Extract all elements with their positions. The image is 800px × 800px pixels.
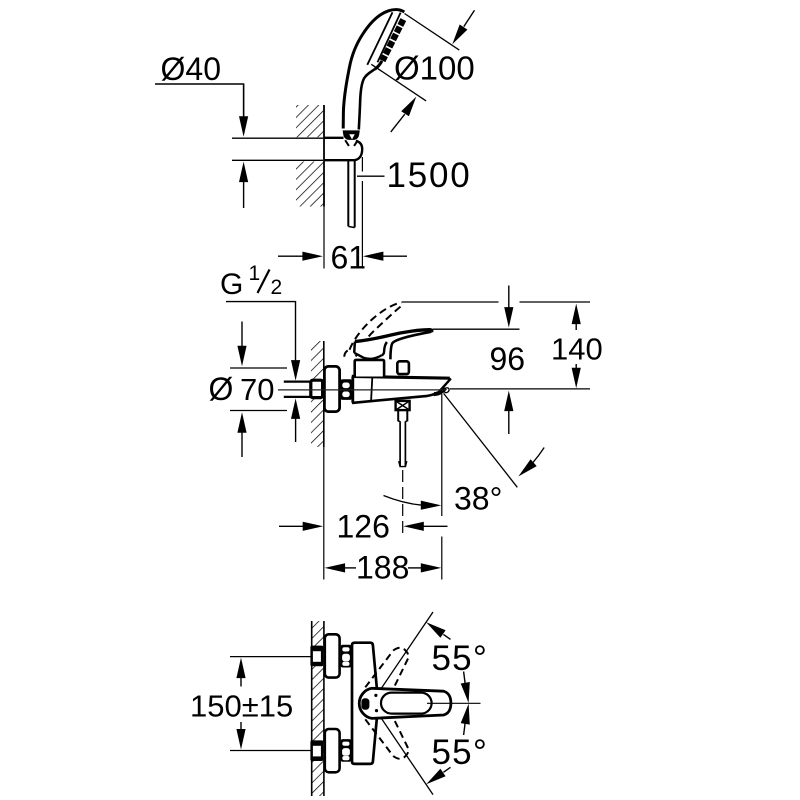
- diverter X-box: [396, 401, 410, 410]
- lever dots: [374, 694, 377, 697]
- G 1/2 up arrow: [291, 398, 300, 419]
- dimension Ø100 lower arrow: [401, 97, 416, 117]
- wall holder bracket: [324, 138, 362, 160]
- dimension Ø40 leader: [155, 84, 244, 122]
- dimension 150±15 extension/supply lines: [230, 656, 311, 658]
- dimension 140 bottom extension line (spout outlet level): [450, 388, 590, 390]
- svg-text:126: 126: [337, 509, 390, 545]
- dimension Ø40 up arrow: [239, 162, 248, 183]
- svg-text:G: G: [220, 268, 243, 301]
- dimension 150±15 down arrow: [236, 729, 245, 750]
- wall lines (bottom view): [311, 621, 313, 796]
- dimension 96 top extension line: [433, 328, 520, 330]
- dimension Ø100 upper arrow: [452, 25, 467, 45]
- dimension 188 left arrow: [325, 563, 346, 572]
- upper wall nut: [310, 646, 323, 667]
- dimension Ø70 up arrow: [237, 412, 246, 433]
- dimension Ø40 text: [161, 51, 221, 87]
- 38 degree diagonal line: [444, 393, 518, 487]
- dimension 1500 leader: [357, 175, 385, 177]
- supply pipe G1/2: [284, 382, 312, 397]
- dimension 150±15 up arrow: [236, 658, 245, 679]
- lever hole capsule: [361, 698, 369, 709]
- 55 degree line lower: [382, 719, 434, 795]
- escutcheon (middle view): [324, 366, 339, 411]
- dashed raised lever (middle view): [344, 302, 401, 357]
- 55 degree upper center arrow: [461, 682, 470, 703]
- lever inner stadium: [381, 693, 432, 714]
- lower connector nut (plan): [341, 739, 352, 762]
- spout outlet cut: [438, 379, 451, 393]
- mixer body and spout: [352, 376, 451, 403]
- diverter knob: [397, 361, 409, 374]
- G 1/2 down arrow: [291, 360, 300, 381]
- svg-text:55°: 55°: [432, 733, 489, 772]
- svg-text:188: 188: [356, 550, 409, 586]
- shower head outline: [343, 10, 404, 130]
- svg-text:1500: 1500: [387, 156, 472, 195]
- dimension 188 right arrow: [421, 563, 442, 572]
- dashed rotated lever +55 (plan): [365, 648, 408, 690]
- centerline (plan): [427, 702, 481, 704]
- lever handle (plan): [359, 688, 451, 718]
- spout tip vertical extension line (188): [441, 394, 443, 516]
- diverter pull rod: [398, 410, 407, 467]
- lever handle (solid): [354, 330, 432, 360]
- dimension Ø100 extension line 1: [405, 14, 460, 51]
- svg-text:1: 1: [249, 262, 261, 285]
- shower head face plate lines: [367, 12, 392, 65]
- spout outlet lip: [434, 388, 446, 394]
- dimension 140 top extension line: [402, 301, 499, 303]
- dimension 61 right arrow: [363, 252, 384, 261]
- dimension Ø40 down arrow: [239, 116, 248, 137]
- dimension 96 down arrow: [504, 307, 513, 328]
- svg-text:Ø100: Ø100: [394, 50, 475, 87]
- svg-text:140: 140: [551, 332, 603, 367]
- svg-text:38°: 38°: [454, 481, 502, 517]
- mixer body (plan): [352, 643, 377, 764]
- centerline (middle view): [278, 389, 446, 391]
- wall hatching (top view): [296, 105, 324, 207]
- pipe square nut: [311, 380, 323, 397]
- svg-text:61: 61: [331, 240, 367, 276]
- wall hatching (middle view): [311, 341, 324, 447]
- dimension Ø70 down arrow: [237, 346, 246, 367]
- svg-text:96: 96: [490, 341, 526, 377]
- G 1/2 label: [220, 262, 282, 301]
- svg-text:Ø: Ø: [209, 371, 234, 407]
- dimension 126 left arrow: [303, 522, 324, 531]
- dimension Ø100 extension line 2: [371, 64, 426, 101]
- svg-text:2: 2: [271, 276, 283, 299]
- dimension 140 down arrow: [572, 368, 581, 389]
- dimension 140 up arrow: [572, 304, 581, 325]
- 38 degree arc right with arrow: [521, 448, 544, 475]
- svg-text:55°: 55°: [432, 639, 489, 678]
- dimension 61 left arrow: [302, 252, 323, 261]
- cartridge dome: [355, 360, 384, 377]
- wall line (top view): [323, 105, 325, 207]
- 55 degree lower center arrow: [461, 704, 470, 725]
- dimension Ø70 extension lines: [230, 367, 287, 369]
- wall extension line down to 61 dim: [323, 207, 325, 269]
- shower hose: [348, 161, 354, 228]
- wall line (middle view): [323, 341, 325, 447]
- dimension 126 right arrow: [403, 522, 424, 531]
- wall extension line down to dims: [323, 447, 325, 580]
- upper escutcheon (plan): [325, 634, 340, 677]
- dimension 96 up arrow: [504, 391, 513, 412]
- hose cone nut: [343, 130, 360, 146]
- 55 degree line upper: [382, 612, 434, 688]
- 55 degree lower arrow: [426, 769, 445, 785]
- diverter rod extension line (dashed): [402, 470, 404, 538]
- dimension 61 extension line (hose side): [361, 157, 363, 268]
- wall hatching (bottom view): [312, 621, 324, 796]
- G 1/2 leader: [226, 302, 296, 362]
- shower head face bottom corner: [375, 61, 382, 69]
- svg-text:70: 70: [240, 372, 274, 407]
- svg-text:150±15: 150±15: [190, 689, 293, 724]
- shower handle right edge: [359, 69, 375, 129]
- lower escutcheon (plan): [325, 729, 340, 772]
- upper connector nut (plan): [341, 645, 352, 668]
- 55 degree upper arrow: [426, 622, 445, 638]
- dimension Ø40 extension lines: [232, 137, 323, 139]
- dashed rotated lever -55 (plan): [365, 717, 408, 759]
- shower head spray band: [383, 20, 404, 61]
- 38 degree arc left with arrow: [384, 496, 423, 506]
- connector nut (middle view): [341, 379, 352, 400]
- lower wall nut: [310, 740, 323, 761]
- svg-text:Ø40: Ø40: [161, 51, 221, 87]
